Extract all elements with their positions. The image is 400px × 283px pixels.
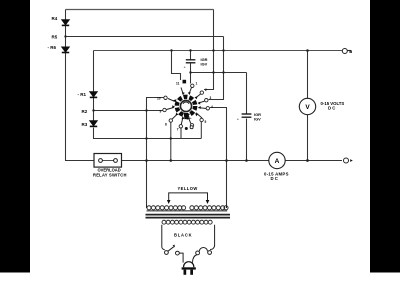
svg-text:7: 7 <box>177 128 179 132</box>
svg-text:R5: R5 <box>52 35 58 40</box>
svg-text:11: 11 <box>176 82 180 86</box>
svg-text:BLACK: BLACK <box>174 233 192 238</box>
svg-text:1: 1 <box>196 82 198 86</box>
svg-text:R4: R4 <box>52 16 58 21</box>
svg-text:YELLOW: YELLOW <box>178 186 198 191</box>
svg-text:10: 10 <box>157 97 161 101</box>
svg-text:4: 4 <box>211 105 213 109</box>
svg-text:A: A <box>275 158 280 165</box>
svg-text:9: 9 <box>160 110 162 114</box>
svg-text:D C: D C <box>271 176 278 181</box>
svg-text:8: 8 <box>165 123 167 127</box>
svg-text:R3: R3 <box>82 122 88 127</box>
svg-text:- R6: - R6 <box>48 45 57 50</box>
svg-text:2: 2 <box>205 88 207 92</box>
svg-text:IGV: IGV <box>201 61 208 66</box>
svg-text:D C: D C <box>328 106 335 111</box>
svg-text:5: 5 <box>205 120 207 124</box>
svg-text:RELAY SWITCH: RELAY SWITCH <box>93 172 127 177</box>
svg-text:3: 3 <box>210 96 212 100</box>
svg-text:R2: R2 <box>82 109 88 114</box>
svg-text:- R1: - R1 <box>78 92 87 97</box>
svg-text:V: V <box>305 104 310 111</box>
svg-text:IGV: IGV <box>254 117 261 122</box>
